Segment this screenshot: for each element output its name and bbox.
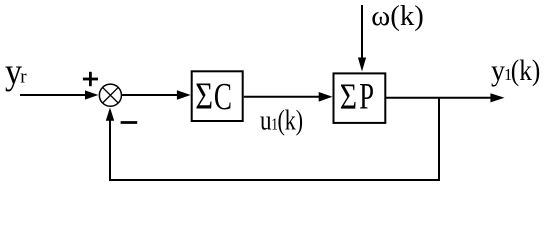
svg-text:Σ: Σ bbox=[195, 76, 213, 118]
block P : plant block bbox=[334, 73, 386, 123]
block C : controller block bbox=[192, 71, 243, 121]
plus sign at summing junction bbox=[83, 72, 98, 86]
svg-text:C: C bbox=[214, 77, 232, 118]
node y1(k) : output label bbox=[491, 54, 540, 87]
wire : input arrow into summing junction bbox=[20, 90, 98, 99]
label Sigma C inside controller block bbox=[195, 76, 232, 119]
svg-text:r: r bbox=[20, 67, 27, 88]
wire : summing junction to controller block bbox=[122, 90, 191, 100]
node u1(k) : control signal label bbox=[260, 104, 303, 136]
feedback wire : output tap down, across bottom, up into summing junction bbox=[106, 98, 439, 180]
minus sign at feedback input bbox=[121, 121, 138, 124]
node yr : input reference label bbox=[5, 50, 27, 92]
svg-text:(k): (k) bbox=[277, 104, 303, 136]
svg-text:(k): (k) bbox=[511, 54, 541, 87]
svg-text:Σ: Σ bbox=[340, 77, 357, 118]
wire : disturbance arrow into plant block bbox=[358, 5, 366, 72]
svg-text:u: u bbox=[260, 104, 272, 136]
label Sigma P inside plant block bbox=[340, 75, 374, 117]
wire : plant output arrow bbox=[386, 93, 505, 102]
wire : controller to plant block bbox=[244, 92, 333, 102]
summing junction (circle with X) bbox=[99, 84, 121, 106]
svg-text:P: P bbox=[359, 75, 374, 116]
svg-text:ω(k): ω(k) bbox=[371, 1, 424, 32]
